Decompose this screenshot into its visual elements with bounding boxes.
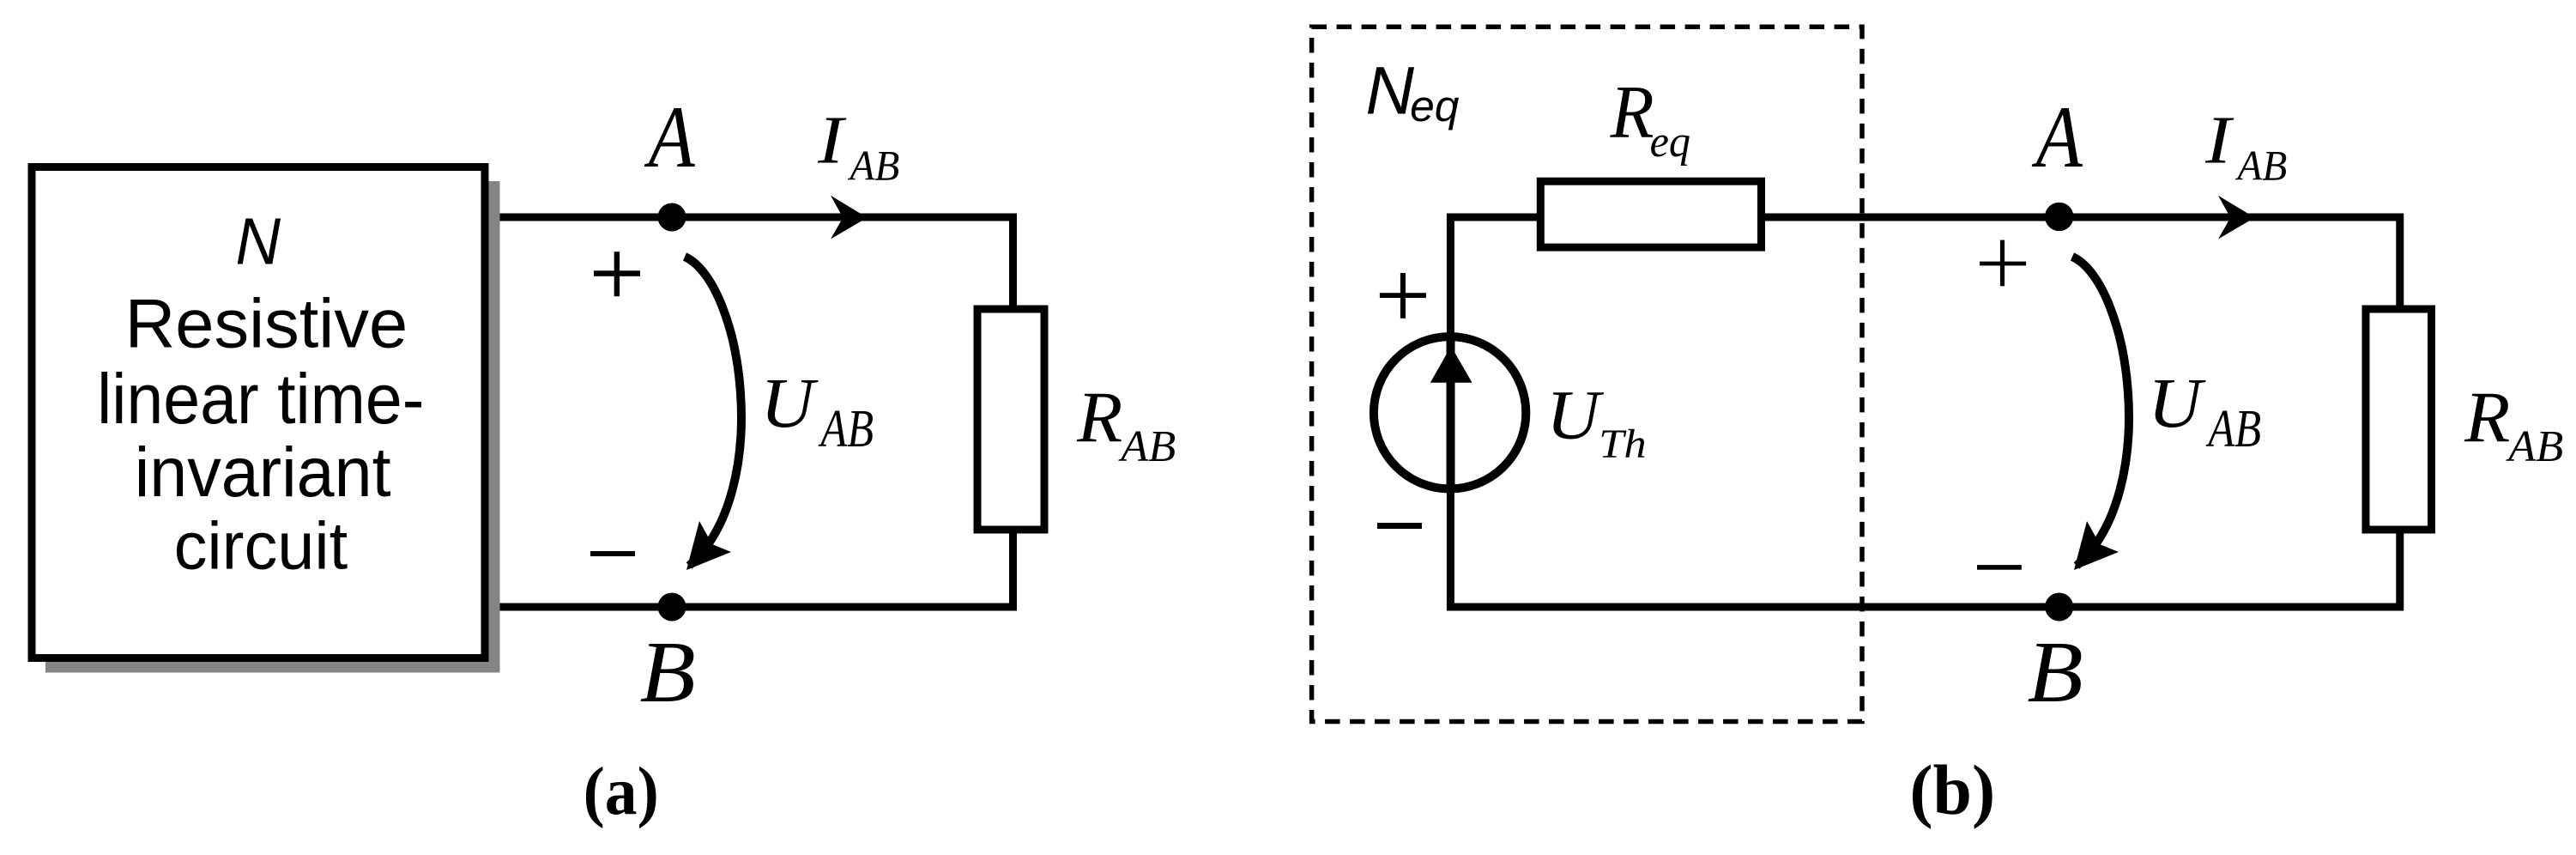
svg-text:invariant: invariant	[135, 434, 391, 512]
minus sign (b)	[1977, 565, 2022, 570]
svg-text:AB: AB	[1118, 421, 1176, 471]
source arrow shaft	[1447, 337, 1455, 491]
dashed boundary N_eq	[1312, 27, 1862, 721]
voltage arc arrowhead (a)	[686, 521, 731, 570]
node A (b)	[2045, 203, 2073, 231]
source circle U_Th	[1374, 337, 1526, 488]
svg-text:U: U	[1546, 375, 1605, 453]
svg-text:Th: Th	[1599, 422, 1647, 467]
svg-text:AB: AB	[2506, 421, 2563, 471]
plus sign (a)	[594, 270, 640, 276]
voltage arc U_AB (a)	[685, 257, 741, 566]
svg-text:B: B	[640, 623, 696, 720]
plus sign (b)	[1980, 262, 2026, 266]
resistor R_AB (b)	[2366, 309, 2432, 530]
wire loop (b)	[1450, 217, 2399, 607]
voltage arc U_AB (b)	[2072, 257, 2129, 566]
svg-text:R: R	[2464, 378, 2510, 458]
svg-text:U: U	[760, 363, 819, 442]
svg-text:AB: AB	[2235, 142, 2288, 190]
current arrowhead I_AB (a)	[831, 196, 868, 240]
svg-text:N: N	[1365, 52, 1414, 128]
svg-text:A: A	[644, 89, 695, 186]
box shadow	[45, 181, 500, 673]
svg-text:R: R	[1076, 378, 1122, 458]
plus sign (source)	[1380, 293, 1426, 298]
svg-text:eq: eq	[1410, 82, 1459, 130]
svg-text:Resistive: Resistive	[125, 286, 408, 363]
svg-text:AB: AB	[2205, 398, 2261, 458]
node A (a)	[658, 203, 686, 232]
svg-text:I: I	[2204, 103, 2234, 178]
minus sign (source)	[1377, 523, 1422, 529]
current arrowhead I_AB (b)	[2218, 196, 2255, 240]
node B (b)	[2045, 593, 2073, 622]
svg-text:U: U	[2148, 363, 2206, 442]
svg-text:N: N	[235, 206, 281, 279]
resistor R_AB (a)	[977, 309, 1044, 530]
svg-text:B: B	[2028, 623, 2083, 720]
svg-text:linear time-: linear time-	[97, 360, 424, 439]
svg-text:(a): (a)	[584, 755, 659, 829]
wire loop (a)	[489, 217, 1013, 607]
source arrow triangle	[1430, 346, 1472, 383]
circuit box N	[32, 167, 485, 658]
svg-text:A: A	[2031, 89, 2083, 186]
svg-text:I: I	[817, 103, 847, 178]
minus sign (a)	[590, 551, 635, 556]
svg-text:AB: AB	[848, 142, 900, 190]
svg-text:AB: AB	[818, 398, 874, 458]
svg-text:circuit: circuit	[174, 510, 348, 584]
node B (a)	[658, 593, 686, 622]
voltage arc arrowhead (b)	[2074, 521, 2119, 570]
resistor R_eq	[1540, 181, 1761, 247]
svg-text:(b): (b)	[1909, 750, 1995, 829]
svg-text:R: R	[1610, 70, 1654, 154]
svg-text:eq: eq	[1650, 118, 1690, 167]
